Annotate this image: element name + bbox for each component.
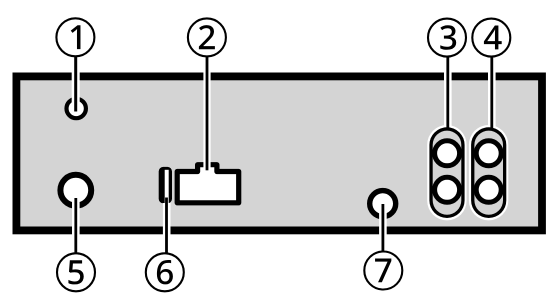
callout 3 circle <box>428 19 466 57</box>
leader 6 <box>165 198 168 253</box>
leader 5 casing <box>72 198 80 253</box>
callout 2 label <box>199 25 215 49</box>
RCA group 3 halo <box>427 125 466 220</box>
connector 2 <box>177 165 239 203</box>
leader 4 casing <box>488 55 496 127</box>
callout 6 label <box>157 260 173 284</box>
leader 4 <box>490 56 493 130</box>
slot 6 slit <box>165 170 169 204</box>
callout 1 circle <box>56 18 94 56</box>
callout 2 circle <box>188 18 226 56</box>
hole 1 <box>67 99 86 118</box>
RCA jack 4 bottom <box>476 177 501 202</box>
hole 5 <box>60 175 91 206</box>
callout 6 circle <box>146 253 184 291</box>
callout 5 circle <box>57 253 95 291</box>
RCA jack 3 bottom <box>435 177 460 202</box>
leader 2 <box>206 56 209 170</box>
hole 7 <box>370 191 396 217</box>
leader 1 <box>74 56 77 112</box>
panel body <box>16 76 542 230</box>
RCA jack 4 top <box>476 141 501 166</box>
leader 7 casing <box>379 204 387 252</box>
callout 1 label <box>71 25 81 49</box>
RCA group 3 outline <box>429 127 464 218</box>
callout 4 label <box>484 26 502 50</box>
RCA group 3 inner <box>433 131 462 215</box>
leader 7 <box>382 204 385 252</box>
leader 6 casing <box>163 203 171 253</box>
RCA group 4 outline <box>471 127 506 218</box>
leader 2 casing <box>203 55 210 168</box>
RCA group 4 halo <box>469 125 508 220</box>
leader 1 casing <box>72 55 80 105</box>
leader 3 casing <box>444 55 452 127</box>
callout 3 label <box>440 25 456 49</box>
leader 3 <box>446 56 449 130</box>
RCA group 4 inner <box>474 131 503 215</box>
leader 5 <box>74 198 77 254</box>
RCA jack 3 top <box>435 141 460 166</box>
callout 4 circle <box>472 19 510 57</box>
slot 6 body <box>159 167 172 203</box>
callout 7 circle <box>364 252 402 290</box>
callout 5 label <box>68 260 83 284</box>
callout 7 label <box>375 259 391 283</box>
